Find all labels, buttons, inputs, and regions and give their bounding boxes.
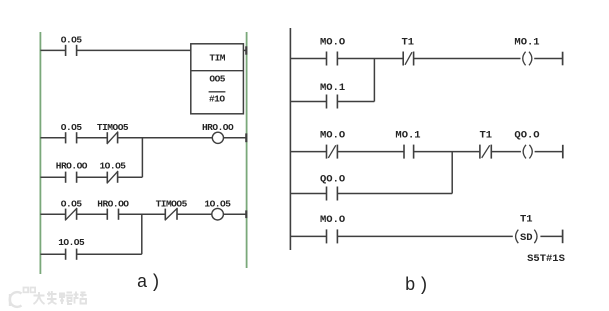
svg-text:TIMOO5: TIMOO5: [97, 122, 129, 133]
contact 0.05 (NO) rung1 a: [66, 45, 77, 56]
wire branch1 b: rail to contact M0.1: [290, 101, 326, 103]
timer block TIM outline: [191, 44, 244, 114]
wire rung1 b: rail to contact M0.0: [290, 58, 326, 60]
contact M0.1 (NO) rung2 b: [404, 145, 414, 159]
wire rung3 b: rail to contact M0.0: [290, 235, 326, 237]
branch connector rung1 b (vertical): [373, 59, 375, 102]
svg-text:1O.O5: 1O.O5: [99, 160, 126, 171]
contact Q0.0 (NO) branch2 b: [327, 187, 338, 201]
coil SD right paren rung3 b: [534, 230, 537, 244]
svg-text:TIM: TIM: [209, 52, 225, 63]
right terminal stub rung2 b: [562, 145, 564, 159]
svg-text:HRO.OO: HRO.OO: [97, 198, 129, 209]
junction tick at right rail rung2 a: [245, 133, 247, 142]
wire rung1 a: TIM block to right rail: [243, 49, 246, 51]
wire rung3 a: 0.05 to HR0.00: [77, 213, 108, 215]
wire rung2 a: left rail to contact 0.05: [40, 137, 65, 139]
svg-text:O.O5: O.O5: [61, 198, 83, 209]
contact 0.05 (NO) rung2 a: [66, 132, 77, 143]
contact 10.05 (NO) branch3 a: [66, 249, 77, 260]
wire rung2 a: 0.05 to TIM005: [77, 137, 108, 139]
wire rung1 b: T1 to coil M0.1: [414, 58, 521, 60]
wire rung3 a: coil to right rail: [223, 213, 246, 215]
svg-text:MO.O: MO.O: [320, 214, 345, 226]
wire branch3 a: left rail to contact 10.05: [40, 253, 65, 255]
wire rung2 a: coil to right rail: [224, 137, 247, 139]
wire rung2 b: M0.1 to contact T1: [414, 151, 480, 153]
svg-text:T1: T1: [479, 129, 492, 141]
svg-text:MO.O: MO.O: [320, 129, 345, 141]
wire branch2 a: 10.05 to connector: [118, 176, 143, 178]
contact M0.0 (NO) rung1 b: [327, 52, 338, 66]
svg-text:T1: T1: [520, 214, 533, 226]
wire rung1 a: contact 0.05 to TIM block: [77, 49, 191, 51]
svg-text:TIMOO5: TIMOO5: [156, 198, 188, 209]
left power rail of diagram b: [289, 28, 291, 250]
contact M0.0 (NC) rung2 b: [327, 145, 338, 159]
coil 10.05 (circle) rung3 a: [212, 208, 224, 220]
timer block divider line: [191, 70, 244, 72]
svg-text:#1O: #1O: [209, 94, 225, 105]
svg-text:SD: SD: [520, 232, 533, 244]
svg-text:QO.O: QO.O: [320, 173, 345, 185]
wire branch3 a: 10.05 to connector: [77, 253, 142, 255]
right terminal stub rung1 b: [562, 52, 564, 66]
wire rung3 b: coil to right stub: [540, 235, 562, 237]
wire rung2 b: M0.0 to contact M0.1: [337, 151, 404, 153]
wire rung1 a: left rail to contact 0.05: [40, 49, 65, 51]
contact HR0.00 (NO) branch2 a: [66, 172, 77, 183]
contact M0.1 (NO) branch1 b: [327, 95, 338, 109]
svg-text:MO.1: MO.1: [514, 36, 539, 48]
svg-text:O.O5: O.O5: [61, 122, 83, 133]
contact T1 (NC) rung1 b: [403, 52, 413, 66]
svg-text:HRO.OO: HRO.OO: [56, 160, 88, 171]
wire rung2 b: coil to right stub: [535, 151, 563, 153]
coil Q0.0 left paren rung2 b: [523, 145, 526, 159]
svg-text:O.O5: O.O5: [61, 34, 83, 45]
wire rung2 b: T1 to coil Q0.0: [491, 151, 521, 153]
contact HR0.00 (NO) rung3 a: [107, 209, 118, 220]
svg-text:a): a): [137, 273, 164, 293]
svg-text:S5T#1S: S5T#1S: [527, 253, 565, 265]
svg-text:T1: T1: [401, 36, 414, 48]
contact TIM005 (NC) rung2 a: [107, 132, 118, 144]
coil HR0.00 (circle) rung2 a: [212, 132, 223, 143]
svg-text:1O.O5: 1O.O5: [58, 237, 85, 248]
coil M0.1 right paren rung1 b: [529, 52, 532, 66]
wire branch2 a: left rail to contact HR0.00: [40, 176, 65, 178]
left power rail (green) of diagram a: [39, 32, 41, 274]
wire branch2 b: rail to contact Q0.0: [290, 193, 326, 195]
contact TIM005 (NC) rung3 a: [165, 208, 178, 220]
wire rung1 b: M0.0 to junction: [337, 58, 403, 60]
svg-text:QO.O: QO.O: [514, 129, 539, 141]
right terminal stub rung3 b: [562, 230, 564, 244]
coil M0.1 left paren rung1 b: [523, 52, 526, 66]
wire rung3 a: left rail to contact 0.05: [40, 213, 65, 215]
wire branch2 a: HR0.00 to 10.05: [77, 176, 108, 178]
watermark logo and text (bottom-left): [10, 288, 35, 307]
svg-text:b): b): [405, 276, 432, 296]
wire branch2 b: Q0.0 to connector: [337, 193, 452, 195]
svg-text:MO.O: MO.O: [320, 36, 345, 48]
wire rung3 b: M0.0 to coil SD: [337, 235, 512, 237]
wire rung3 a: TIM005 to coil 10.05: [177, 213, 212, 215]
svg-text:MO.1: MO.1: [320, 82, 345, 94]
branch connector rung2 b (vertical): [451, 152, 453, 194]
wire rung1 b: coil to right stub: [534, 58, 562, 60]
branch connector rung3 a (vertical): [141, 214, 143, 254]
contact M0.0 (NO) rung3 b: [327, 229, 338, 243]
junction tick at right rail rung3 a: [245, 210, 247, 218]
wire rung2 b: rail to contact M0.0: [290, 151, 326, 153]
contact 10.05 (NC) branch2 a: [107, 171, 118, 183]
wire rung2 a: TIM005 to coil HR0.00: [118, 137, 213, 139]
svg-text:MO.1: MO.1: [395, 129, 420, 141]
branch connector rung2 a (vertical): [141, 138, 143, 177]
junction tick at right rail rung1 a: [245, 46, 247, 54]
coil Q0.0 right paren rung2 b: [529, 145, 532, 159]
overline above #10: [209, 91, 226, 93]
wire branch1 b: M0.1 to connector: [337, 101, 374, 103]
coil SD left paren rung3 b: [516, 230, 519, 244]
wire rung3 a: HR0.00 to TIM005: [119, 213, 166, 215]
right power rail (green) of diagram a: [246, 32, 248, 268]
svg-text:OO5: OO5: [209, 73, 225, 84]
svg-text:1O.O5: 1O.O5: [204, 198, 231, 209]
svg-text:HRO.OO: HRO.OO: [202, 122, 234, 133]
contact T1 (NC) rung2 b: [480, 145, 491, 159]
contact 0.05 (NC) rung3 a: [65, 208, 77, 220]
